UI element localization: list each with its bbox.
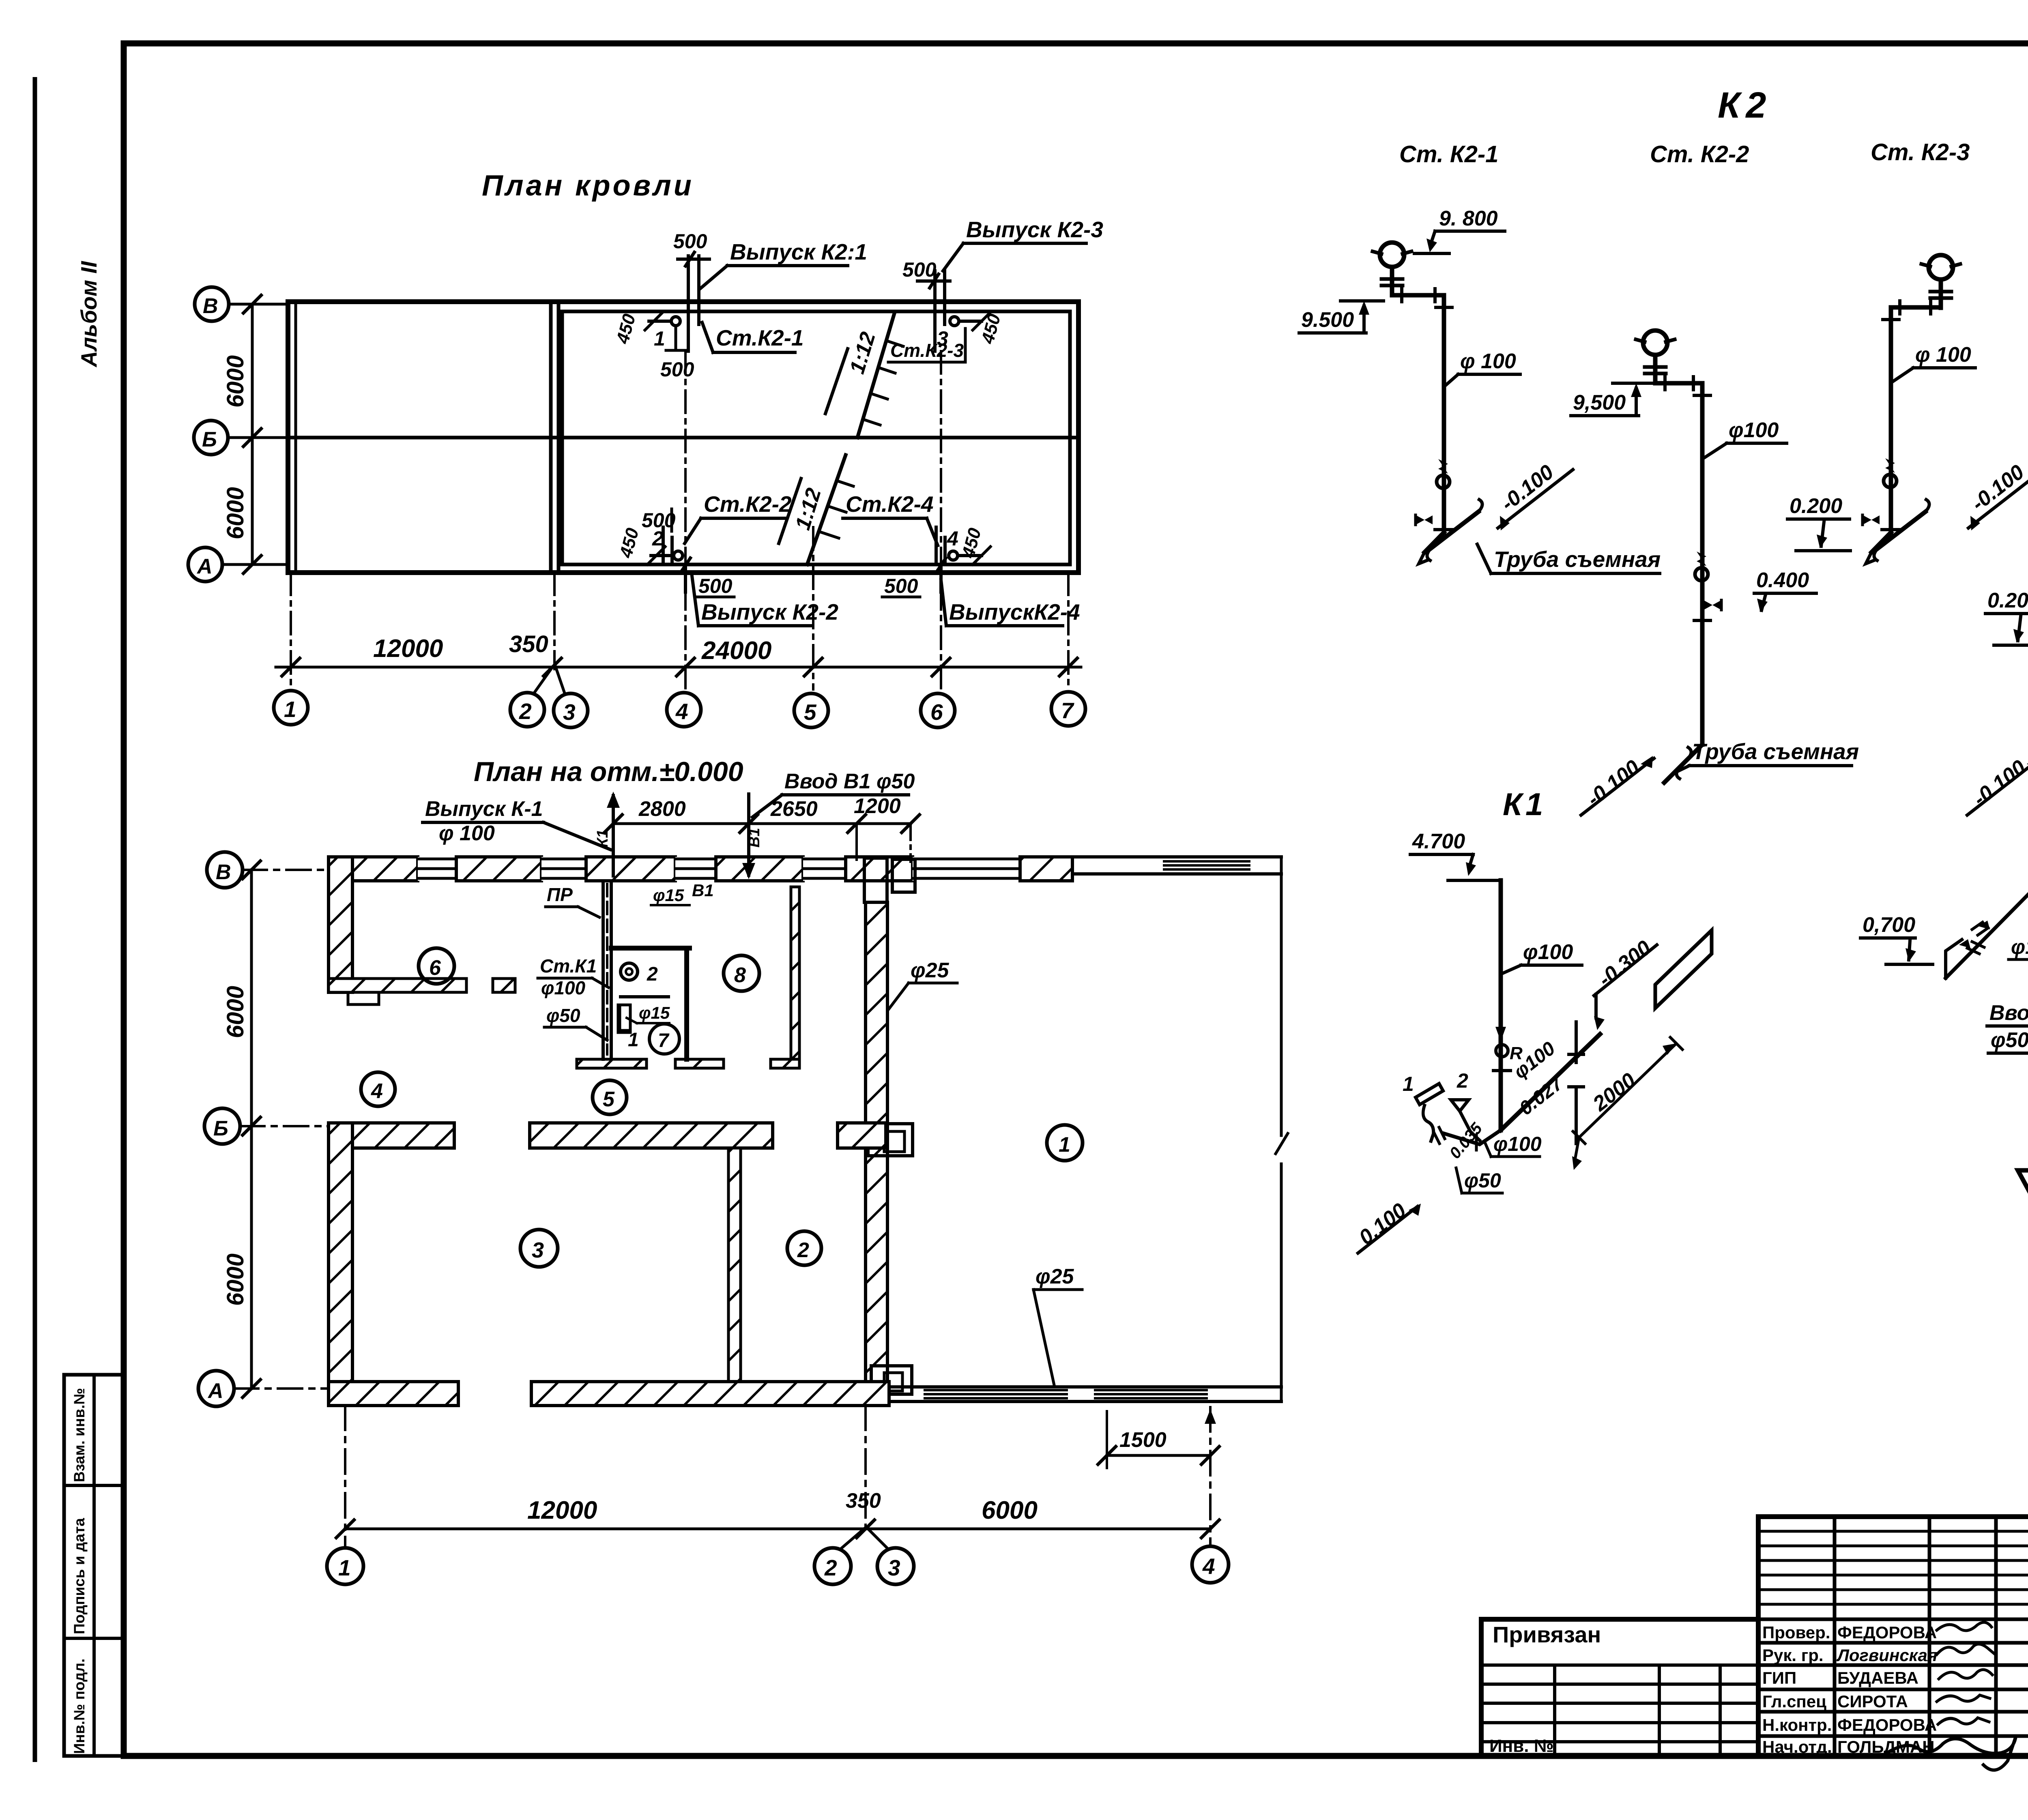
svg-text:0.200: 0.200: [1987, 589, 2028, 612]
svg-text:24000: 24000: [701, 637, 771, 665]
St.K2-2 floor drain circle: [674, 551, 683, 560]
room 8 left wall: [791, 887, 799, 1059]
axis line 1: [290, 573, 292, 689]
svg-text:Б: Б: [202, 428, 217, 451]
svg-text:Ст. К2-3: Ст. К2-3: [1871, 139, 1970, 165]
svg-text:1: 1: [1403, 1073, 1414, 1095]
arrow K1 up: [612, 796, 615, 876]
K2-3 vent cap: [1921, 255, 1960, 308]
axis line 4: [684, 351, 687, 689]
attribute strip box: [64, 1375, 124, 1756]
wall V segment 6: [1020, 857, 1072, 881]
room circle 5: [593, 1080, 627, 1114]
thick wall axis3: [866, 902, 887, 1382]
svg-text:9.500: 9.500: [1301, 308, 1354, 332]
room circle 3: [520, 1230, 558, 1267]
privyazan box: [1481, 1619, 1758, 1756]
K2-2 bottom elbow removable: [1664, 745, 1702, 783]
axis circle 5: [794, 693, 828, 728]
K2-3 elbow horizontal: [1891, 305, 1941, 310]
room circle 8: [724, 955, 759, 991]
left wall lower block: [329, 1123, 352, 1406]
svg-text:350: 350: [509, 631, 548, 657]
svg-text:φ50: φ50: [546, 1005, 580, 1026]
K1 branch to fixtures: [1444, 1130, 1501, 1144]
svg-text:0,700: 0,700: [1863, 913, 1915, 937]
K1 dim 2000: [1579, 1043, 1676, 1137]
axis circle B floor: [204, 1108, 240, 1144]
corridor bottom wall seg 2: [675, 1059, 724, 1068]
svg-text:1200: 1200: [854, 794, 901, 818]
wall axis3 mid block: [868, 1124, 913, 1156]
svg-text:4: 4: [675, 699, 688, 724]
svg-text:6: 6: [930, 700, 943, 725]
K2-3 removable pipe diagonal: [1878, 512, 1925, 548]
left wall upper block: [329, 857, 352, 992]
svg-text:1500: 1500: [1119, 1428, 1167, 1452]
svg-text:φ100: φ100: [1493, 1133, 1542, 1155]
K1 wall cut parallelogram: [1655, 930, 1712, 1008]
svg-text:1: 1: [628, 1029, 639, 1051]
room circle 4: [361, 1072, 395, 1106]
svg-text:Выпуск К2-2: Выпуск К2-2: [701, 599, 838, 625]
room circle 7: [649, 1024, 679, 1054]
roof stack St.K2-4 group: [843, 491, 1080, 626]
window V2: [541, 857, 586, 881]
svg-text:План на отм.±0.000: План на отм.±0.000: [474, 756, 743, 787]
svg-text:2800: 2800: [638, 797, 686, 821]
K2-2 vent cap: [1636, 331, 1675, 383]
B1 left branch diagonal: [1946, 890, 2028, 978]
svg-text:1: 1: [1059, 1133, 1070, 1157]
svg-text:500: 500: [902, 258, 937, 281]
svg-text:Привязан: Привязан: [1493, 1622, 1601, 1647]
axis circle 3: [554, 693, 588, 728]
wall V segment 5: [846, 857, 913, 881]
vypusk K2-4 below roof: [939, 564, 943, 592]
svg-text:2: 2: [647, 964, 658, 985]
svg-text:Выпуск К2-3: Выпуск К2-3: [966, 217, 1103, 242]
svg-text:1: 1: [654, 327, 665, 350]
room 6 bottom wall notch: [348, 992, 379, 1004]
axis circle 3 floor: [877, 1548, 914, 1584]
svg-text:А: А: [207, 1379, 223, 1403]
roof outline outer: [288, 302, 1078, 573]
K2-3 riser pipe: [1889, 307, 1893, 532]
svg-text:6000: 6000: [222, 355, 249, 408]
roof wall axis 2-3 double line: [549, 302, 553, 573]
St.K2-3 riser pipe above roof: [933, 271, 937, 351]
svg-text:Взам. инв.№: Взам. инв.№: [71, 1388, 88, 1483]
svg-text:350: 350: [846, 1489, 881, 1513]
svg-text:4: 4: [371, 1080, 383, 1103]
svg-text:А: А: [196, 555, 213, 578]
svg-text:Ст.К2-3: Ст.К2-3: [890, 340, 964, 361]
svg-text:Рук. гр.: Рук. гр.: [1762, 1646, 1824, 1665]
window V right: [1164, 861, 1249, 869]
wall B level seg1: [329, 1123, 454, 1148]
revision grid thin rows: [1758, 1531, 2028, 1604]
axis line 5: [812, 527, 814, 689]
svg-text:6000: 6000: [982, 1496, 1038, 1524]
axis 4 line floor: [1209, 1407, 1212, 1546]
room 6 bottom wall: [329, 979, 466, 992]
roof stack St.K2-1 group: [612, 230, 867, 381]
axis circle B: [194, 421, 228, 455]
window V4: [803, 857, 846, 881]
wall V segment 2: [456, 857, 541, 881]
axis circle A: [188, 547, 222, 582]
room1 right edge: [1280, 857, 1283, 1401]
floor vertical dim line: [250, 870, 253, 1389]
svg-text:В: В: [216, 861, 231, 884]
svg-text:500: 500: [884, 575, 918, 597]
svg-text:Ст. К2-2: Ст. К2-2: [1650, 141, 1749, 167]
K2-1 elbow horizontal: [1392, 293, 1444, 298]
svg-text:φ 100: φ 100: [1915, 343, 1971, 367]
svg-text:2: 2: [652, 527, 664, 550]
svg-text:2: 2: [519, 699, 532, 724]
vypusk K2-2 below roof: [684, 564, 687, 592]
K2-2 revision valve: [1695, 552, 1708, 581]
svg-text:Ст.К1: Ст.К1: [540, 955, 597, 977]
axis circle A floor: [198, 1371, 234, 1406]
K1 ticks on diagonal: [1575, 1022, 1578, 1144]
floor plan annotations: [361, 770, 1083, 1387]
roof parapet inner rect: [562, 311, 1070, 564]
axis 1 line floor: [344, 1406, 346, 1547]
svg-text:Альбом II: Альбом II: [76, 261, 101, 368]
wall V segment 3: [586, 857, 675, 881]
svg-text:φ100: φ100: [541, 977, 586, 998]
K2-1 vent cap: [1373, 243, 1411, 295]
axis circle 2: [510, 693, 544, 727]
K2-1 pipe bottom elbow: [1424, 532, 1444, 552]
floor bottom dim line: [345, 1528, 1210, 1530]
svg-text:9. 800: 9. 800: [1439, 207, 1498, 230]
svg-text:Инв.№ подл.: Инв.№ подл.: [71, 1659, 88, 1754]
svg-text:2: 2: [1457, 1069, 1468, 1092]
window V3: [675, 857, 716, 881]
signature squiggles: [1937, 1623, 1991, 1631]
K2-2 riser pipe: [1700, 383, 1705, 745]
K2-2 elbow horizontal: [1655, 381, 1702, 386]
axis circle V floor: [207, 852, 243, 888]
svg-text:СИРОТА: СИРОТА: [1837, 1692, 1908, 1711]
svg-text:1: 1: [284, 697, 296, 722]
svg-text:0.200: 0.200: [1790, 494, 1842, 518]
svg-text:φ50: φ50: [1991, 1028, 2028, 1052]
svg-text:План кровли: План кровли: [482, 170, 694, 202]
svg-text:Выпуск К2:1: Выпуск К2:1: [730, 239, 867, 264]
K2-3 gate valve left: [1863, 515, 1880, 524]
window V5: [913, 857, 1020, 881]
room circle 6: [419, 948, 454, 984]
svg-text:Гл.спец: Гл.спец: [1762, 1692, 1826, 1711]
roof stack St.K2-2 group: [616, 491, 838, 626]
window A right 1: [925, 1390, 1067, 1398]
svg-text:φ25: φ25: [911, 959, 950, 982]
axis circle 7: [1051, 692, 1085, 726]
svg-text:φ 100: φ 100: [1460, 350, 1516, 373]
K2-3 revision valve: [1884, 458, 1897, 487]
WC fixture: [621, 963, 638, 980]
K2-1 riser pipe: [1442, 295, 1446, 532]
K2-3 pipe bottom elbow: [1871, 532, 1891, 552]
roof ridge line axis B: [288, 436, 1078, 440]
svg-text:Провер.: Провер.: [1762, 1623, 1830, 1642]
room circle 1: [1047, 1125, 1083, 1161]
signature grid verticals: [1835, 1517, 2028, 1756]
axis 2-3 line floor: [864, 1406, 867, 1529]
svg-text:7: 7: [658, 1030, 670, 1052]
svg-text:Ввод В1 φ50: Ввод В1 φ50: [784, 770, 915, 793]
svg-text:В: В: [203, 294, 218, 318]
corridor bottom wall seg 3: [771, 1059, 799, 1068]
svg-text:В1: В1: [746, 828, 763, 848]
wall axis3 top notch: [864, 858, 887, 902]
svg-text:Выпуск К-1: Выпуск К-1: [425, 797, 543, 821]
svg-text:Подпись и дата: Подпись и дата: [71, 1518, 88, 1634]
K1 riser pipes in shaft: [606, 884, 608, 1054]
St.K2-1 floor drain circle: [671, 317, 680, 326]
svg-text:4: 4: [947, 527, 958, 550]
slope mark 1:12 upper: [857, 313, 894, 438]
top dimension line: [613, 822, 911, 825]
wall A level seg2: [531, 1382, 889, 1406]
wall rooms 3-2: [728, 1148, 741, 1382]
wall axis3 bottom block: [871, 1366, 912, 1394]
axis line 2-3: [553, 573, 556, 669]
roof bottom dimension line: [276, 666, 1081, 669]
svg-text:500: 500: [698, 575, 733, 597]
svg-text:Инв. №: Инв. №: [1489, 1736, 1554, 1756]
K1 pipe arrow: [1495, 1027, 1506, 1041]
axis circle 2 floor: [814, 1548, 851, 1584]
svg-text:500: 500: [673, 230, 707, 253]
svg-text:0.400: 0.400: [1756, 569, 1809, 592]
svg-text:φ25: φ25: [1035, 1265, 1074, 1288]
svg-text:Б: Б: [213, 1117, 228, 1140]
wall V segment 1: [329, 857, 418, 881]
K2-1 removable pipe diagonal: [1431, 512, 1478, 548]
title block left edge: [1756, 1517, 1761, 1756]
svg-text:φ100: φ100: [1729, 419, 1779, 442]
wall A thin right part: [889, 1387, 1281, 1401]
svg-text:φ15: φ15: [639, 1003, 670, 1022]
svg-text:4: 4: [1202, 1554, 1215, 1579]
window V1: [418, 857, 456, 881]
svg-text:Труба съемная: Труба съемная: [1494, 547, 1661, 572]
axis circle 6: [921, 693, 955, 728]
svg-text:ВыпускК2-4: ВыпускК2-4: [949, 599, 1080, 625]
svg-text:2650: 2650: [770, 797, 818, 821]
svg-text:Ввод В1: Ввод В1: [1989, 1001, 2028, 1025]
svg-text:7: 7: [1061, 698, 1074, 723]
St.K2-2 riser pipe below roof: [662, 527, 665, 564]
St.K2-4 floor drain circle: [949, 551, 958, 560]
arrow V1 down: [747, 794, 750, 875]
sink pipe line: [621, 995, 668, 998]
svg-text:12000: 12000: [373, 635, 443, 663]
floor plan axes: [198, 852, 1229, 1584]
svg-text:φ15: φ15: [2011, 936, 2028, 958]
svg-text:ГИП: ГИП: [1762, 1668, 1796, 1687]
svg-text:φ 100: φ 100: [439, 822, 495, 845]
roof left wall double line: [294, 302, 297, 573]
stack scheme St.K2-1: [1299, 207, 1661, 573]
St.K2-3 floor drain circle: [950, 317, 959, 326]
svg-text:3: 3: [563, 700, 576, 725]
svg-text:Труба съемная: Труба съемная: [1692, 739, 1859, 764]
St.K2-1 riser pipe above roof (vypusk K2-1): [687, 256, 690, 351]
svg-text:6000: 6000: [222, 986, 249, 1038]
axis circle 1 floor: [327, 1548, 363, 1584]
svg-text:ПР: ПР: [547, 884, 573, 905]
svg-text:Ст.К2-1: Ст.К2-1: [716, 325, 803, 350]
stack scheme St.K2-3: [1787, 255, 2028, 564]
slope mark 1:12 lower: [807, 455, 846, 564]
svg-text:К2: К2: [1718, 85, 1772, 126]
svg-text:500: 500: [660, 358, 694, 381]
K2-1 gate valve left: [1416, 515, 1433, 524]
svg-text:ФЕДОРОВА: ФЕДОРОВА: [1837, 1715, 1937, 1734]
K2-2 gate valve right: [1704, 601, 1721, 610]
window A right 2: [1095, 1390, 1207, 1398]
dim 1500: [1107, 1454, 1210, 1457]
svg-text:К1: К1: [1503, 786, 1546, 822]
svg-text:Ст.К2-4: Ст.К2-4: [846, 491, 933, 517]
wall V thin right part: [1072, 857, 1281, 874]
K1 riser pipe: [1499, 880, 1503, 1130]
axis circle 4 floor: [1192, 1546, 1229, 1583]
svg-text:6: 6: [429, 956, 441, 980]
toilet cubicle right wall: [684, 948, 689, 1059]
wall axis3 top block: [892, 859, 915, 892]
svg-text:φ50: φ50: [1464, 1169, 1501, 1192]
svg-text:Ст. К2-1: Ст. К2-1: [1399, 141, 1498, 167]
svg-text:Н.контр.: Н.контр.: [1762, 1715, 1832, 1734]
roof stack St.K2-3 group: [888, 217, 1103, 362]
K2-1 revision valve: [1437, 459, 1450, 488]
svg-text:Ст.К2-2: Ст.К2-2: [704, 491, 792, 517]
svg-text:9,500: 9,500: [1573, 391, 1626, 414]
svg-text:8: 8: [734, 964, 746, 987]
svg-text:φ15: φ15: [653, 886, 684, 905]
svg-text:В1: В1: [692, 881, 714, 900]
room circle 2: [787, 1231, 821, 1265]
toilet cubicle top wall: [611, 946, 690, 951]
svg-text:5: 5: [804, 700, 817, 725]
axis circle 4: [667, 693, 701, 727]
axis line 7: [1067, 573, 1070, 689]
svg-text:1: 1: [338, 1555, 351, 1580]
signature grid horizontals: [1758, 1619, 2028, 1736]
B1 F25 zigzag main: [2018, 879, 2028, 1195]
room1 right edge break: [1276, 1133, 1288, 1154]
svg-text:2: 2: [797, 1238, 809, 1262]
svg-text:4.700: 4.700: [1412, 830, 1465, 853]
vertical dim line roof left: [251, 304, 254, 564]
svg-text:6000: 6000: [222, 1253, 249, 1306]
axis circle 1: [274, 691, 308, 725]
toilet K1 shaft: [603, 882, 611, 1059]
svg-text:6000: 6000: [222, 487, 249, 539]
axis line 6: [940, 351, 942, 689]
svg-text:2: 2: [824, 1555, 837, 1580]
stack scheme St.K2-2: [1571, 331, 1859, 815]
B1 faucets: [1946, 940, 1962, 978]
svg-text:БУДАЕВА: БУДАЕВА: [1837, 1668, 1918, 1687]
svg-text:φ100: φ100: [1523, 940, 1573, 964]
sheet edge line left: [33, 77, 37, 1762]
St.K2-4 riser pipe below roof: [935, 527, 938, 564]
wall V segment 4: [716, 857, 803, 881]
K1 revision circle R: [1496, 1045, 1508, 1057]
svg-text:5: 5: [603, 1088, 615, 1111]
svg-text:ФЕДОРОВА: ФЕДОРОВА: [1837, 1623, 1937, 1642]
wall B level seg2: [530, 1123, 773, 1148]
wall A level seg1: [329, 1382, 458, 1406]
svg-text:Нач.отд.: Нач.отд.: [1762, 1737, 1832, 1756]
K1 main drain diagonal: [1501, 1034, 1600, 1130]
svg-text:3: 3: [532, 1238, 544, 1262]
wall B level seg3: [838, 1123, 886, 1148]
corridor bottom wall seg 1: [577, 1059, 647, 1068]
sink fixture: [618, 1005, 630, 1032]
axis circle V: [195, 287, 229, 321]
title block outer top: [1758, 1514, 2028, 1519]
svg-text:Логвинская: Логвинская: [1836, 1646, 1938, 1665]
svg-text:12000: 12000: [527, 1496, 597, 1524]
svg-text:3: 3: [888, 1555, 900, 1580]
stack scheme St.K2-4: [1967, 290, 2028, 815]
